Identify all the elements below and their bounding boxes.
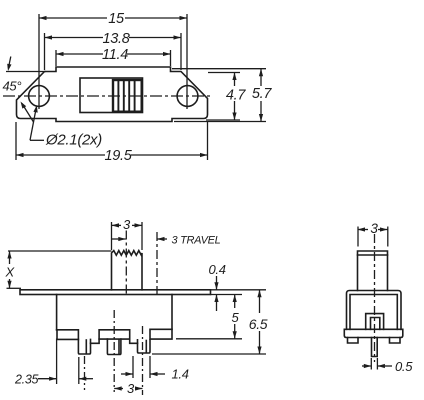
- svg-text:6.5: 6.5: [249, 316, 268, 332]
- svg-text:3: 3: [370, 221, 378, 236]
- svg-text:3: 3: [123, 217, 131, 232]
- svg-text:11.4: 11.4: [102, 47, 128, 63]
- svg-text:5.7: 5.7: [252, 86, 272, 102]
- svg-text:0.5: 0.5: [395, 359, 413, 374]
- svg-text:X: X: [5, 265, 16, 280]
- svg-text:0.4: 0.4: [209, 262, 226, 277]
- svg-text:2.35: 2.35: [14, 373, 38, 387]
- svg-text:19.5: 19.5: [104, 148, 132, 164]
- svg-text:3 TRAVEL: 3 TRAVEL: [172, 235, 221, 247]
- svg-text:3: 3: [127, 381, 135, 396]
- svg-text:5: 5: [232, 310, 240, 325]
- svg-text:Ø2.1(2x): Ø2.1(2x): [45, 132, 102, 149]
- svg-text:13.8: 13.8: [102, 31, 129, 47]
- svg-text:15: 15: [108, 11, 125, 27]
- svg-text:1.4: 1.4: [172, 367, 189, 382]
- svg-text:4.7: 4.7: [226, 88, 246, 104]
- svg-text:45°: 45°: [3, 79, 22, 94]
